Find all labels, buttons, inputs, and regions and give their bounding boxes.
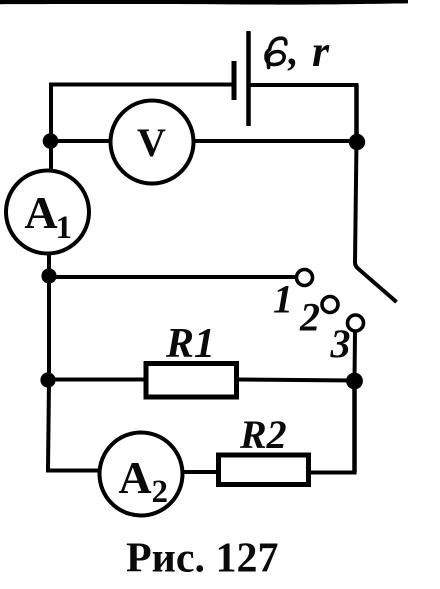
svg-text:2: 2 xyxy=(152,474,169,510)
svg-text:A: A xyxy=(24,187,57,238)
node at R1 left xyxy=(40,372,55,387)
ammeter A2 xyxy=(100,433,183,516)
svg-text:2: 2 xyxy=(299,295,320,340)
resistor R1 xyxy=(146,321,237,397)
node below A1 xyxy=(41,268,56,283)
wire contact 3 stem xyxy=(353,331,358,381)
wire R1 right xyxy=(238,380,355,381)
ammeter A1 xyxy=(6,171,89,254)
svg-text:1: 1 xyxy=(273,277,293,322)
wire R2 right xyxy=(308,471,357,475)
top page rule xyxy=(0,0,408,5)
svg-text:V: V xyxy=(137,120,166,165)
contact 2 xyxy=(322,297,338,313)
svg-text:Рис. 127: Рис. 127 xyxy=(126,536,279,582)
svg-text:A: A xyxy=(118,452,151,503)
wire V left xyxy=(51,139,111,143)
node at right V junction xyxy=(349,134,365,150)
switch blade xyxy=(355,142,397,302)
wire left rail lower xyxy=(48,254,49,471)
wire top-right horizontal xyxy=(249,83,359,87)
node at R1 right xyxy=(346,373,363,390)
contact 3 xyxy=(348,315,364,331)
svg-text:r: r xyxy=(312,27,330,76)
wire top-left horizontal xyxy=(49,83,233,87)
battery label E, r xyxy=(266,27,330,76)
wire bottom left xyxy=(48,469,100,471)
wire R1 left xyxy=(48,378,145,382)
voltmeter V xyxy=(111,101,194,184)
wire left rail upper xyxy=(49,83,53,172)
wire A2 to R2 xyxy=(182,470,218,474)
battery tall plate xyxy=(246,31,251,126)
wire right rail lower xyxy=(352,381,357,473)
wire to contact 1 xyxy=(49,275,297,279)
svg-text:1: 1 xyxy=(56,210,73,246)
wire right rail top xyxy=(354,85,359,142)
svg-text:R2: R2 xyxy=(239,412,287,457)
resistor R2 xyxy=(219,412,309,485)
svg-text:3: 3 xyxy=(330,321,351,366)
contact 1 xyxy=(297,270,313,286)
node at left V junction xyxy=(43,133,59,149)
wire V right xyxy=(193,139,357,143)
svg-text:,: , xyxy=(288,29,299,74)
svg-text:R1: R1 xyxy=(165,321,215,367)
battery short plate xyxy=(232,61,237,100)
